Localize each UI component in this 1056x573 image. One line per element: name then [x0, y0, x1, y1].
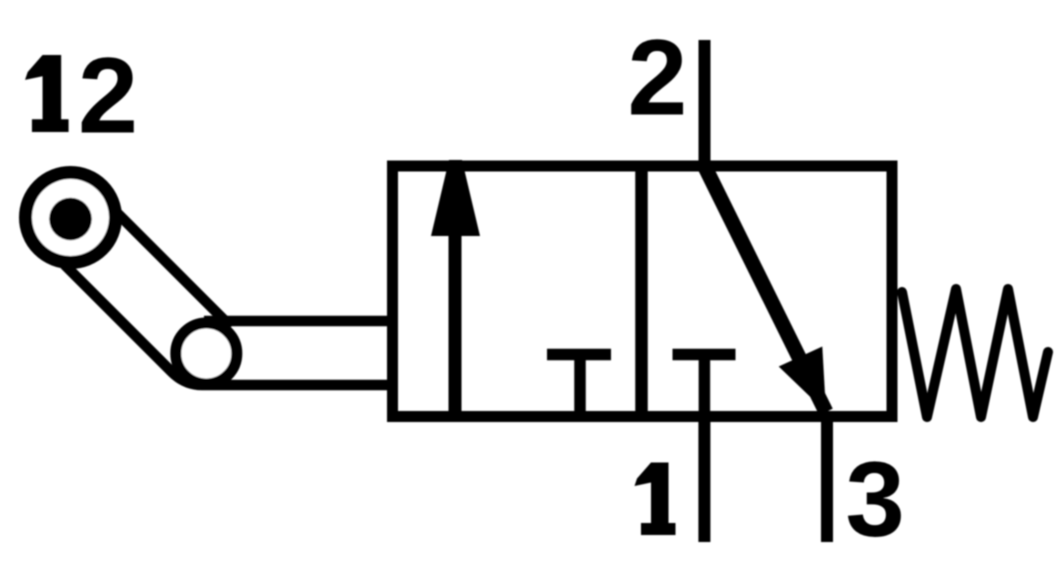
lever arm upper edge: [117, 213, 231, 327]
left cell blocked port T stem: [574, 355, 586, 414]
lever pivot circle: [176, 323, 237, 384]
left cell flow arrow head: [431, 160, 480, 236]
right cell diagonal passage 2-3: [705, 166, 827, 412]
port 1 line: [698, 417, 710, 543]
lever arm lower edge + push rod bottom: [65, 265, 398, 385]
roller axle dot: [49, 198, 92, 241]
position divider: [635, 161, 648, 423]
left cell blocked port T bar: [547, 349, 611, 361]
right cell blocked port T stem: [699, 355, 711, 414]
roller circle: [26, 173, 116, 263]
push rod top edge: [204, 316, 397, 327]
port 2 line: [699, 40, 711, 166]
svg-text:2: 2: [628, 18, 688, 138]
port 3 line: [821, 417, 833, 543]
valve body outline: [393, 166, 893, 417]
return spring: [902, 289, 1048, 417]
svg-text:2: 2: [78, 35, 138, 156]
right cell blocked port T bar: [673, 349, 736, 361]
svg-text:3: 3: [846, 440, 905, 559]
label 12 : digit 1: [25, 55, 69, 132]
label 1: [635, 463, 676, 536]
right cell diagonal arrow head: [779, 347, 826, 413]
left cell flow arrow stem: [449, 232, 462, 413]
